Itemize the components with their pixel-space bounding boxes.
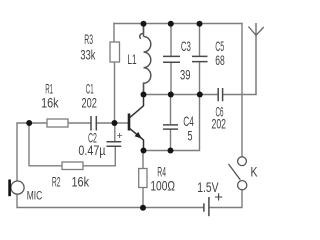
wire rail2 collector node bbox=[144, 94, 219, 96]
resistor R2 bbox=[62, 162, 83, 170]
node L1 top bbox=[141, 21, 147, 27]
microphone MIC bbox=[10, 180, 24, 197]
capacitor C1 plates bbox=[91, 116, 96, 131]
svg-text:16k: 16k bbox=[72, 174, 90, 190]
wire mic top to base line bbox=[17, 123, 47, 181]
wire R2 branch bbox=[29, 123, 62, 166]
wire L1 leads bbox=[143, 24, 145, 95]
wire ground bottom bbox=[17, 194, 204, 207]
svg-text:0.47µ: 0.47µ bbox=[78, 142, 105, 158]
svg-text:5: 5 bbox=[188, 128, 193, 144]
switch K bbox=[229, 157, 247, 190]
wire R1 to C1 bbox=[68, 122, 91, 124]
node C4 bottom bbox=[168, 148, 174, 154]
capacitor C3 plates bbox=[163, 56, 180, 62]
svg-text:+: + bbox=[214, 189, 223, 206]
wire R2 to C2 bbox=[83, 147, 115, 166]
node base R3 bbox=[112, 120, 118, 126]
wire C5 leads bbox=[199, 24, 201, 95]
node base R2 bbox=[26, 120, 32, 126]
svg-text:K: K bbox=[251, 164, 258, 180]
wire switch bottom to battery bbox=[210, 190, 243, 208]
svg-text:202: 202 bbox=[212, 116, 227, 132]
inductor L1 bbox=[140, 24, 151, 95]
node collector bbox=[141, 92, 147, 98]
wire R4 leads bbox=[142, 151, 144, 208]
svg-text:C3: C3 bbox=[181, 38, 191, 54]
resistor R3 bbox=[110, 42, 120, 62]
svg-text:L1: L1 bbox=[127, 51, 136, 67]
svg-text:100Ω: 100Ω bbox=[150, 178, 175, 194]
svg-text:202: 202 bbox=[82, 95, 98, 111]
svg-text:MIC: MIC bbox=[27, 190, 43, 203]
wire C1 to base bbox=[97, 122, 129, 124]
capacitor C6 plates bbox=[218, 88, 222, 101]
wire supply right vertical bbox=[241, 24, 243, 157]
antenna bbox=[248, 23, 263, 95]
wire top rail bbox=[114, 23, 242, 25]
node emitter bbox=[141, 148, 147, 154]
node dots bbox=[26, 21, 203, 211]
capacitor C5 plates bbox=[192, 56, 208, 61]
node C3 top bbox=[168, 21, 174, 27]
svg-text:R3: R3 bbox=[84, 31, 93, 47]
wire C6 to antenna bbox=[223, 94, 256, 96]
battery B1 bbox=[204, 197, 209, 216]
node R4 ground bbox=[140, 205, 146, 211]
wire C2 top lead bbox=[114, 123, 116, 142]
wire C3 leads bbox=[170, 24, 172, 95]
svg-text:R2: R2 bbox=[52, 174, 61, 190]
node C3 bottom bbox=[168, 92, 174, 98]
transistor Q1 bbox=[129, 95, 144, 151]
svg-text:33k: 33k bbox=[80, 47, 96, 63]
node C5 bottom bbox=[197, 92, 203, 98]
capacitor C4 plates bbox=[163, 125, 178, 129]
capacitor C2 plates bbox=[107, 142, 122, 147]
svg-text:+: + bbox=[117, 130, 123, 142]
wire emitter rail bbox=[144, 95, 200, 151]
svg-text:16k: 16k bbox=[41, 95, 59, 111]
wire R3 top lead bbox=[113, 24, 115, 43]
svg-text:39: 39 bbox=[180, 67, 191, 83]
resistor R1 bbox=[47, 119, 68, 127]
wire C4 leads bbox=[170, 95, 172, 151]
svg-text:68: 68 bbox=[215, 52, 225, 68]
wire R3 bottom lead bbox=[114, 62, 116, 123]
node C5 top bbox=[197, 21, 203, 27]
resistor R4 bbox=[139, 169, 147, 188]
